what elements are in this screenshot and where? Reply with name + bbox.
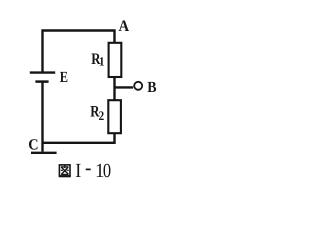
svg-text:I: I: [75, 160, 81, 182]
terminal B circle: [134, 82, 142, 90]
svg-text:1: 1: [99, 55, 105, 69]
resistor R2: [108, 100, 121, 133]
wire top: left branch up, across, down to R1: [43, 31, 115, 73]
svg-text:C: C: [28, 136, 38, 153]
wire stub to terminal B: [115, 86, 134, 88]
svg-text:0: 0: [103, 160, 111, 182]
wire battery to bottom: [41, 82, 43, 152]
svg-text:2: 2: [99, 108, 105, 123]
battery E long plate: [30, 71, 55, 73]
resistor R1: [109, 43, 122, 77]
ground bar at C: [31, 152, 57, 154]
battery E short plate: [35, 80, 48, 83]
wire R1 to R2: [113, 77, 115, 101]
svg-text:B: B: [147, 79, 156, 96]
svg-text:A: A: [119, 18, 130, 35]
caption hanzi "tu" (figure) drawn as glyph: [59, 165, 70, 176]
wire bottom: from C junction to R2 bottom: [43, 133, 115, 143]
svg-text:E: E: [60, 69, 68, 86]
